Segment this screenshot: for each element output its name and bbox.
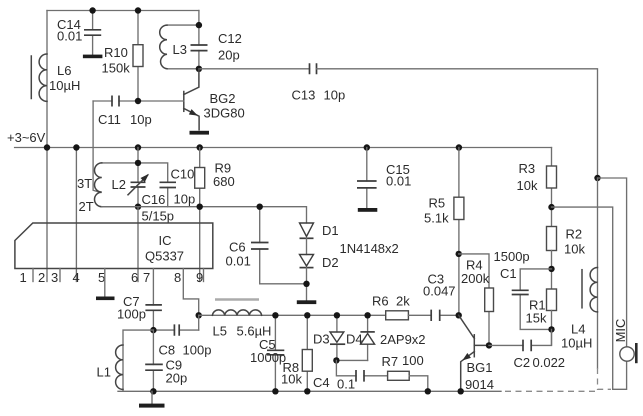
- diode D2: [300, 255, 339, 301]
- svg-text:C10: C10: [171, 167, 195, 182]
- svg-text:680: 680: [213, 174, 235, 189]
- node C5 top: [272, 312, 278, 318]
- node R8 bottom: [304, 388, 310, 394]
- svg-text:C11: C11: [98, 112, 121, 127]
- resistor R3: [517, 148, 557, 227]
- svg-text:C13: C13: [292, 88, 316, 103]
- capacitor C11: [93, 96, 152, 128]
- resistor R5: [424, 148, 464, 316]
- svg-text:L1: L1: [97, 365, 111, 380]
- svg-text:4: 4: [73, 270, 80, 285]
- node A top right: [594, 175, 600, 181]
- svg-text:L6: L6: [57, 63, 71, 78]
- transistor BG2: [184, 69, 245, 130]
- svg-text:100p: 100p: [183, 343, 212, 358]
- svg-text:R2: R2: [566, 227, 583, 242]
- svg-text:R6: R6: [372, 294, 389, 309]
- svg-text:3T: 3T: [77, 176, 92, 191]
- svg-text:BG2: BG2: [210, 91, 236, 106]
- IC U1 Q5337 box: [15, 223, 213, 269]
- node BG1 collector / R4 / C2: [486, 342, 492, 348]
- svg-text:Q5337: Q5337: [145, 249, 184, 264]
- node rail/C15: [364, 144, 370, 150]
- svg-text:0.047: 0.047: [423, 284, 456, 299]
- node top rail junction R10: [135, 7, 141, 13]
- transistor BG1: [459, 315, 494, 392]
- svg-text:10k: 10k: [564, 242, 585, 257]
- svg-text:D3: D3: [313, 332, 330, 347]
- capacitor C6: [226, 207, 307, 284]
- svg-text:2T: 2T: [79, 199, 94, 214]
- svg-text:9014: 9014: [465, 377, 494, 392]
- microphone MIC: [613, 319, 637, 390]
- resistor R1: [526, 289, 557, 345]
- node C5 bottom: [272, 388, 278, 394]
- svg-text:L4: L4: [571, 322, 585, 337]
- wire L4 bottom dashed: [598, 368, 612, 389]
- resistor R7: [382, 353, 428, 391]
- capacitor C4: [313, 360, 388, 391]
- node C7 bottom junction: [150, 327, 156, 333]
- inductor L3: [160, 25, 199, 69]
- node R3 bottom: [548, 204, 554, 210]
- svg-text:10µH: 10µH: [49, 78, 80, 93]
- inductor L1: [97, 330, 154, 391]
- diode D1: [300, 223, 339, 255]
- svg-text:5.1k: 5.1k: [424, 211, 449, 226]
- svg-text:9: 9: [196, 270, 203, 285]
- svg-text:10k: 10k: [517, 178, 538, 193]
- capacitor C7: [117, 269, 162, 331]
- wire V+ supply rail: [15, 147, 552, 149]
- ground for C14: [83, 55, 103, 59]
- node C9 bottom: [150, 388, 156, 394]
- node tank bottom: [196, 66, 202, 72]
- svg-text:0.01: 0.01: [57, 29, 82, 44]
- node R1 bottom: [548, 326, 554, 332]
- node L2 bottom: [135, 204, 141, 210]
- diode D4: [346, 315, 375, 360]
- wire rail to L2 tank top: [137, 148, 139, 163]
- pin stub after 9: [203, 269, 205, 282]
- inductor L5: [199, 310, 386, 339]
- capacitor C3: [408, 272, 458, 322]
- node R7 right bottom rail: [425, 388, 431, 394]
- svg-text:10µH: 10µH: [561, 336, 592, 351]
- svg-text:0.01: 0.01: [386, 174, 411, 189]
- svg-text:1000p: 1000p: [250, 350, 286, 365]
- resistor R2: [547, 227, 586, 290]
- svg-text:10p: 10p: [324, 88, 346, 103]
- node C6 top: [257, 204, 263, 210]
- capacitor C14: [57, 11, 101, 55]
- svg-text:D4: D4: [346, 332, 363, 347]
- resistor R4: [459, 254, 494, 346]
- wire pin 4 drop: [75, 148, 77, 282]
- wire R3 node to MIC left line: [552, 207, 613, 389]
- svg-text:C6: C6: [229, 240, 246, 255]
- node R5 R4 junction: [456, 251, 462, 257]
- node BG1 base / R5 / C3: [456, 312, 462, 318]
- svg-text:20p: 20p: [218, 48, 240, 63]
- svg-text:3: 3: [51, 270, 58, 285]
- node BG2 base / R10 / C11: [135, 98, 141, 104]
- node D4 top: [364, 312, 370, 318]
- wire pin 8 to L5 node: [183, 269, 198, 316]
- svg-text:R7: R7: [382, 354, 399, 369]
- wire tank bottom rail to D1: [102, 207, 307, 223]
- resistor R8: [281, 315, 312, 391]
- wire C8 riser: [198, 315, 200, 330]
- capacitor C10: [138, 163, 195, 207]
- ground for D2: [297, 300, 317, 304]
- wire left column from top rail through L6 down to IC pin 2: [46, 11, 48, 282]
- svg-text:R5: R5: [429, 196, 446, 211]
- svg-text:20p: 20p: [166, 371, 188, 386]
- node D2 bottom / C6: [303, 281, 309, 287]
- svg-text:L3: L3: [173, 42, 187, 57]
- ground below bottom rail: [151, 391, 153, 403]
- svg-text:0.01: 0.01: [226, 254, 251, 269]
- node L5 left: [196, 312, 202, 318]
- inductor L6: [31, 54, 80, 101]
- node L2 top: [135, 160, 141, 166]
- svg-text:10k: 10k: [281, 372, 302, 387]
- svg-text:3DG80: 3DG80: [204, 106, 245, 121]
- svg-text:D2: D2: [322, 255, 339, 270]
- svg-text:R10: R10: [104, 45, 128, 60]
- node R8 top: [304, 312, 310, 318]
- svg-text:2k: 2k: [396, 294, 410, 309]
- svg-text:8: 8: [174, 270, 181, 285]
- svg-text:C16: C16: [142, 192, 166, 207]
- capacitor C13: [292, 63, 346, 102]
- grey artifact line above L5: [215, 298, 259, 301]
- svg-text:L2: L2: [112, 177, 126, 192]
- capacitor C5: [250, 315, 286, 391]
- wire L2 bottom to IC pin 6: [137, 207, 139, 282]
- resistor R6: [372, 294, 410, 320]
- capacitor C12: [191, 25, 242, 69]
- svg-text:+3~6V: +3~6V: [7, 130, 46, 145]
- capacitor C2: [489, 329, 565, 370]
- node D3 top: [334, 312, 340, 318]
- svg-text:L5: L5: [213, 324, 227, 339]
- wire bottom ground rail: [118, 390, 501, 392]
- svg-text:15k: 15k: [526, 311, 547, 326]
- svg-text:5/15p: 5/15p: [142, 209, 175, 224]
- resistor R9: [195, 148, 235, 282]
- node top rail junction C14: [89, 7, 95, 13]
- inductor L2 with taps 3T / 2T: [95, 163, 139, 207]
- capacitor C15: [357, 148, 411, 209]
- wire tank stem: [198, 11, 200, 26]
- capacitor C9: [145, 330, 187, 391]
- pin stub after 1: [32, 269, 34, 282]
- variable capacitor C16: [128, 163, 174, 224]
- svg-text:0.022: 0.022: [533, 355, 566, 370]
- svg-text:100p: 100p: [117, 307, 146, 322]
- wire D3 D4 bottoms: [336, 359, 367, 361]
- node rail/R5: [456, 144, 462, 150]
- node rail/pin4: [73, 144, 79, 150]
- svg-text:C12: C12: [218, 31, 242, 46]
- svg-text:1500p: 1500p: [494, 249, 530, 264]
- svg-text:10p: 10p: [174, 192, 196, 207]
- wire from C13 to right edge down to node A: [317, 69, 598, 178]
- wire bottom rail dashed section: [505, 390, 595, 392]
- svg-text:BG1: BG1: [467, 360, 493, 375]
- inductor L4: [561, 178, 598, 368]
- wire top supply rail: [47, 10, 199, 12]
- svg-text:D1: D1: [322, 223, 339, 238]
- svg-text:2AP9x2: 2AP9x2: [380, 332, 426, 347]
- svg-text:200k: 200k: [461, 271, 490, 286]
- svg-text:150k: 150k: [102, 61, 131, 76]
- svg-text:R3: R3: [519, 161, 536, 176]
- svg-text:C2: C2: [514, 355, 531, 370]
- svg-text:C1: C1: [500, 266, 517, 281]
- svg-text:10p: 10p: [130, 112, 152, 127]
- node rail/L2: [135, 144, 141, 150]
- svg-text:MIC: MIC: [613, 319, 628, 343]
- resistor R10: [102, 11, 144, 102]
- node BG1 emitter bottom rail: [458, 388, 464, 394]
- svg-text:IC: IC: [159, 233, 172, 248]
- ground for pin 5: [96, 297, 115, 301]
- svg-text:0.1: 0.1: [337, 377, 355, 392]
- svg-text:2: 2: [38, 270, 45, 285]
- capacitor C1: [494, 249, 552, 329]
- svg-text:1N4148x2: 1N4148x2: [340, 241, 399, 256]
- wire pin 5 to ground: [104, 269, 106, 297]
- ground for C15: [358, 208, 378, 212]
- node tank top: [196, 22, 202, 28]
- svg-text:7: 7: [143, 270, 150, 285]
- node rail/L6: [44, 144, 50, 150]
- svg-text:6: 6: [131, 270, 138, 285]
- wire node A to MIC right line: [598, 178, 627, 347]
- svg-text:100: 100: [402, 353, 424, 368]
- node R2 bottom: [548, 266, 554, 272]
- wire from tank to C13: [199, 68, 310, 70]
- diode D3: [313, 315, 345, 360]
- pin stub after 3: [59, 269, 61, 282]
- node rail/R9: [197, 144, 203, 150]
- ground for BG2 emitter: [190, 131, 210, 135]
- node R9 bottom: [197, 204, 203, 210]
- capacitor C8: [153, 324, 211, 357]
- wire C11 to L2 tap: [93, 101, 101, 193]
- svg-text:C4: C4: [313, 375, 330, 390]
- svg-text:1: 1: [20, 270, 27, 285]
- wire BG2 base: [138, 100, 184, 102]
- node D3 bottom: [333, 357, 339, 363]
- svg-text:C8: C8: [159, 343, 176, 358]
